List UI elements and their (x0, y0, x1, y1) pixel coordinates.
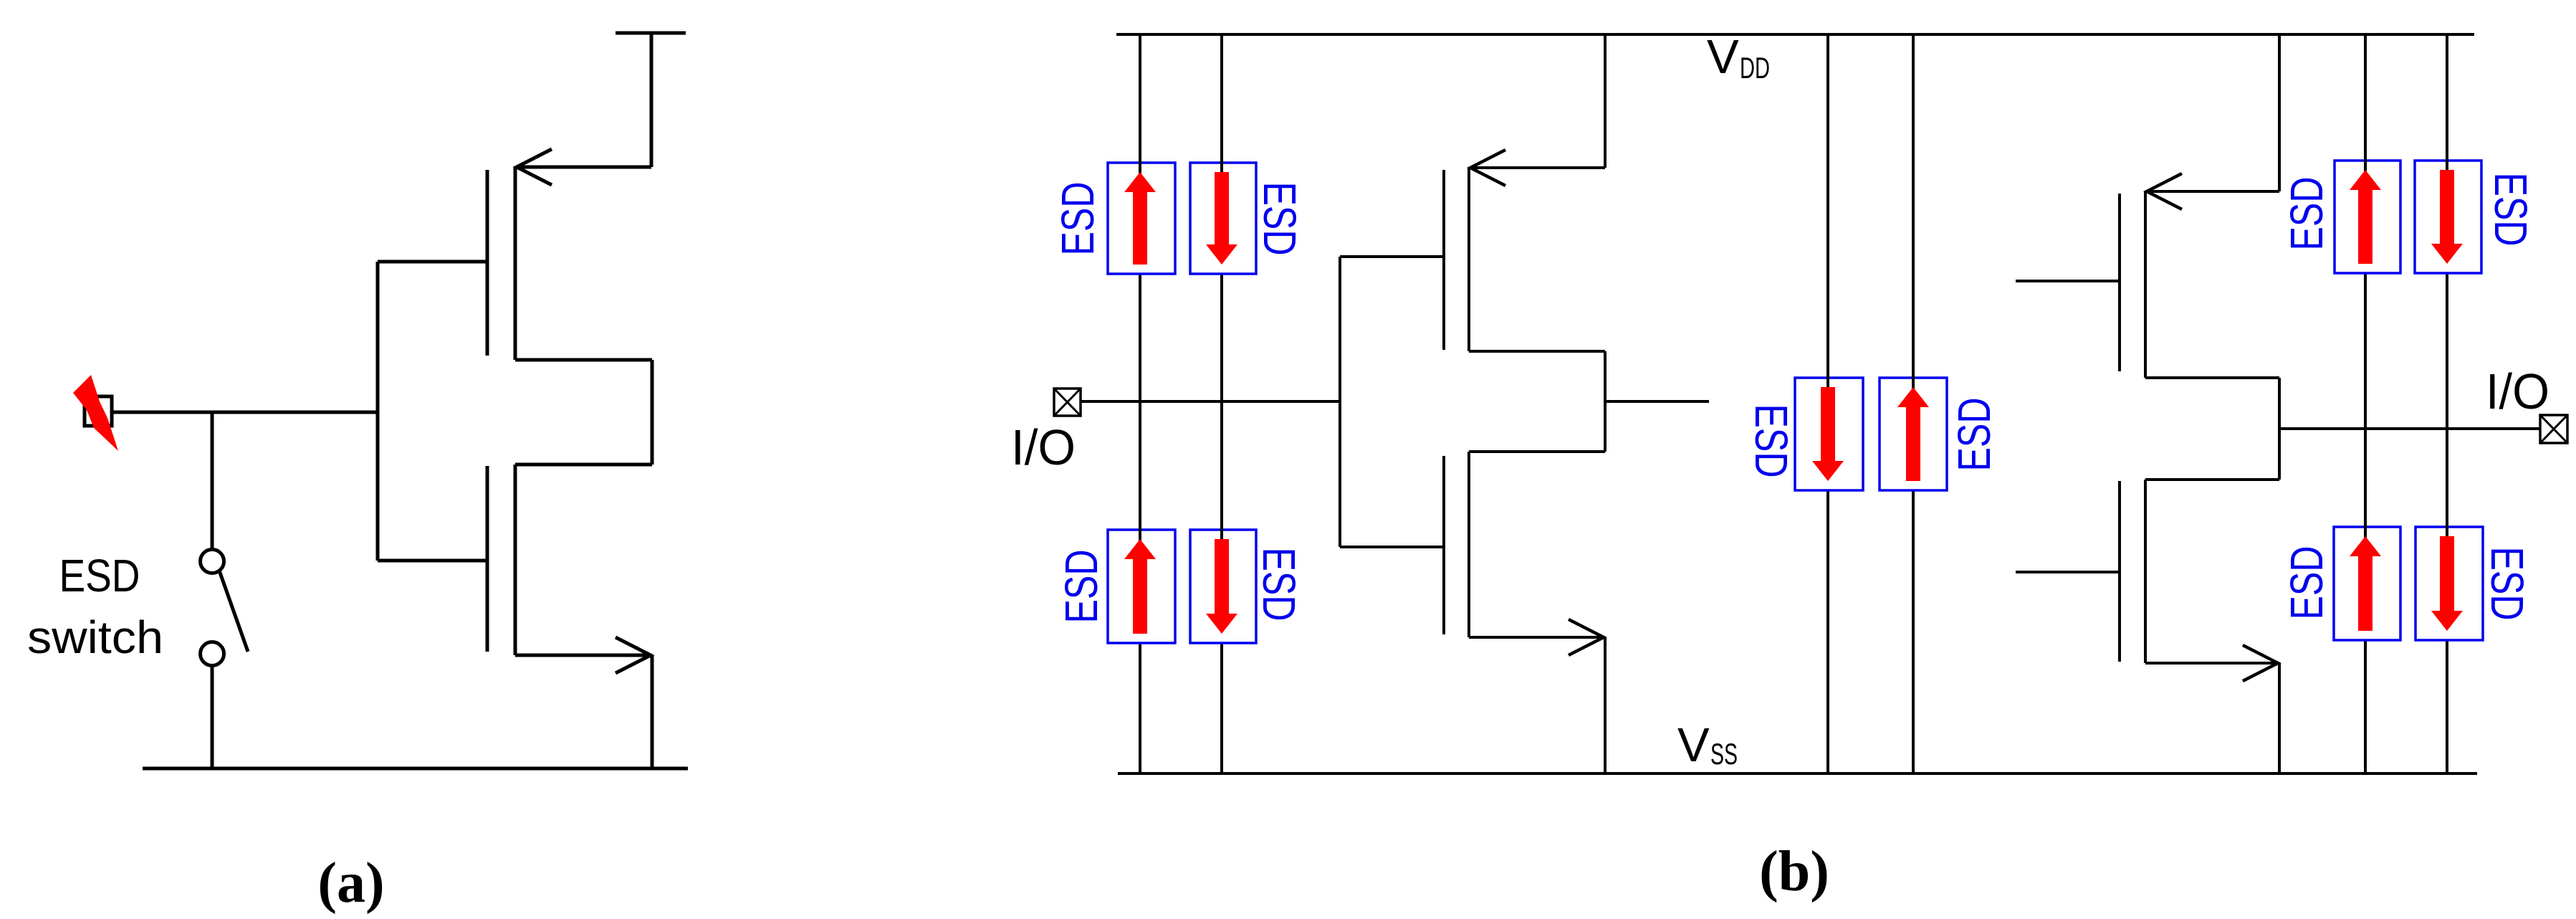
transistor PMOS1 (b): source arrow (1470, 150, 1505, 186)
svg-text:(b): (b) (1759, 840, 1829, 903)
svg-text:SS: SS (1710, 737, 1738, 771)
wire: inverter1 output stub (1605, 400, 1709, 403)
wire: switch branch lower (a) (211, 665, 214, 768)
svg-text:ESD: ESD (59, 550, 140, 601)
svg-text:V: V (1707, 30, 1739, 84)
wire: inverter2 output to right I/O pad (2279, 427, 2540, 430)
ESD protection device R3 (arrow up) (2334, 525, 2400, 640)
wire: input from left I/O pad (1081, 400, 1340, 403)
wire: PMOS drain (a) (515, 358, 652, 362)
node: inverter2 output bracket (2278, 378, 2281, 480)
label VSS (1677, 718, 1738, 772)
wire: middle ESD column 2 (1912, 34, 1915, 773)
ESD protection device M2 (arrow up) (1880, 376, 1947, 490)
transistor PMOS (a): source wire (517, 166, 651, 169)
svg-text:switch: switch (27, 611, 163, 663)
ESD protection device M1 (arrow down) (1795, 376, 1863, 490)
svg-text:ESD: ESD (1052, 182, 1103, 256)
svg-text:ESD: ESD (2485, 173, 2537, 247)
wire: NMOS2 drain (2145, 478, 2279, 481)
transistor NMOS (a): channel bar (514, 465, 517, 655)
ESD switch blade (219, 571, 248, 652)
wire: right ESD column 1 (2364, 34, 2367, 773)
wire: gate bus vertical (a) (376, 262, 380, 561)
wire: NMOS2 source (2145, 662, 2276, 665)
wire: PMOS1 source drop from VDD (1604, 34, 1607, 168)
transistor PMOS2 (b): source arrow (2147, 173, 2182, 209)
I/O pad (a) (85, 396, 112, 426)
svg-text:ESD: ESD (1254, 182, 1306, 256)
ESD protection device R4 (arrow down) (2415, 525, 2483, 640)
transistor PMOS2 (b): channel bar (2144, 191, 2147, 378)
ESD switch contact circle bottom (201, 642, 224, 666)
wire: PMOS1 gate connection (1340, 255, 1444, 258)
wire: inverter1 gate bus (1339, 257, 1341, 547)
transistor PMOS1 (b): gate bar (1442, 170, 1445, 350)
node: output bracket vertical (a) (651, 360, 654, 465)
transistor PMOS2 (b): gate bar (2118, 194, 2121, 371)
wire: NMOS2 source to VSS (2278, 663, 2281, 773)
I/O pad left (b) (1054, 389, 1081, 416)
caption (b) (1759, 840, 1829, 903)
svg-text:ESD: ESD (1055, 550, 1107, 624)
svg-text:ESD: ESD (1746, 404, 1797, 478)
wire: NMOS1 drain (1469, 450, 1605, 453)
wire: left ESD column 2 (1220, 34, 1223, 773)
svg-text:ESD: ESD (1253, 548, 1305, 622)
ESD protection device L2 (arrow down) (1190, 161, 1256, 274)
wire: NMOS1 source (1469, 636, 1602, 639)
wire: PMOS2 gate stub (2016, 280, 2120, 282)
label: ESD switch (27, 550, 163, 663)
transistor PMOS2 (b): source wire (2147, 190, 2279, 193)
wire: NMOS gate connection (a) (378, 559, 487, 563)
ESD protection device R1 (arrow up) (2335, 158, 2400, 273)
wire: NMOS1 source to VSS (1604, 637, 1607, 773)
ESD switch contact circle top (201, 550, 224, 573)
svg-text:ESD: ESD (2281, 177, 2332, 251)
transistor PMOS1 (b): channel bar (1467, 168, 1470, 351)
svg-text:I/O: I/O (2486, 363, 2549, 419)
transistor NMOS2 (b): channel bar (2144, 480, 2147, 663)
ESD strike lightning bolt (a) (73, 375, 118, 451)
wire: right ESD column 2 (2446, 34, 2448, 773)
I/O pad right (b) (2540, 415, 2567, 443)
svg-text:I/O: I/O (1011, 419, 1076, 475)
transistor NMOS1 (b): gate bar (1442, 456, 1445, 634)
wire: input from pad (a) (112, 411, 378, 414)
ESD protection device L4 (arrow down) (1190, 528, 1256, 643)
wire: middle ESD column 1 (1826, 34, 1829, 773)
node: inverter1 output bracket (1604, 351, 1607, 452)
power rail VDD (b) (1116, 33, 2474, 36)
label I/O left (1011, 419, 1076, 475)
transistor NMOS2 (b): source arrow (2243, 645, 2278, 681)
wire: NMOS drain (a) (515, 463, 652, 467)
transistor NMOS1 (b): source arrow (1569, 619, 1604, 655)
transistor PMOS (a): source arrow (517, 149, 552, 185)
svg-text:ESD: ESD (1948, 398, 2000, 472)
ESD protection device L1 (arrow up) (1108, 161, 1175, 274)
wire: PMOS2 drain (2145, 376, 2279, 379)
ESD protection device R2 (arrow down) (2415, 158, 2481, 273)
svg-text:ESD: ESD (2281, 546, 2332, 620)
wire: NMOS source (a) (515, 654, 649, 657)
transistor NMOS (a): gate bar (486, 466, 489, 652)
wire: PMOS gate connection (a) (378, 260, 487, 264)
wire: left ESD column 1 (1139, 34, 1141, 773)
svg-text:DD: DD (1740, 51, 1770, 85)
transistor PMOS1 (b): source wire (1470, 166, 1605, 169)
transistor NMOS2 (b): gate bar (2118, 481, 2121, 662)
caption (a) (317, 852, 384, 915)
transistor PMOS (a): gate bar (486, 170, 489, 356)
transistor NMOS (a): source arrow (616, 637, 651, 673)
ESD protection device L3 (arrow up) (1108, 528, 1175, 643)
transistor PMOS (a): channel bar (514, 167, 517, 360)
transistor NMOS1 (b): channel bar (1467, 452, 1470, 637)
ground rail (a) (143, 767, 688, 771)
wire: switch branch upper (a) (211, 412, 214, 549)
wire: NMOS1 gate connection (1340, 546, 1444, 548)
wire: PMOS1 drain (1469, 350, 1605, 353)
wire: NMOS2 gate stub (2016, 571, 2120, 573)
power VDD symbol (a) (616, 33, 686, 167)
svg-text:V: V (1677, 718, 1710, 772)
label I/O right (2486, 363, 2549, 419)
wire: PMOS2 source drop from VDD (2278, 34, 2281, 191)
svg-text:ESD: ESD (2481, 547, 2533, 621)
wire: NMOS source to ground rail (a) (651, 655, 654, 768)
svg-text:(a): (a) (317, 852, 384, 915)
label VDD (1707, 30, 1770, 85)
power rail VSS (b) (1118, 772, 2477, 775)
